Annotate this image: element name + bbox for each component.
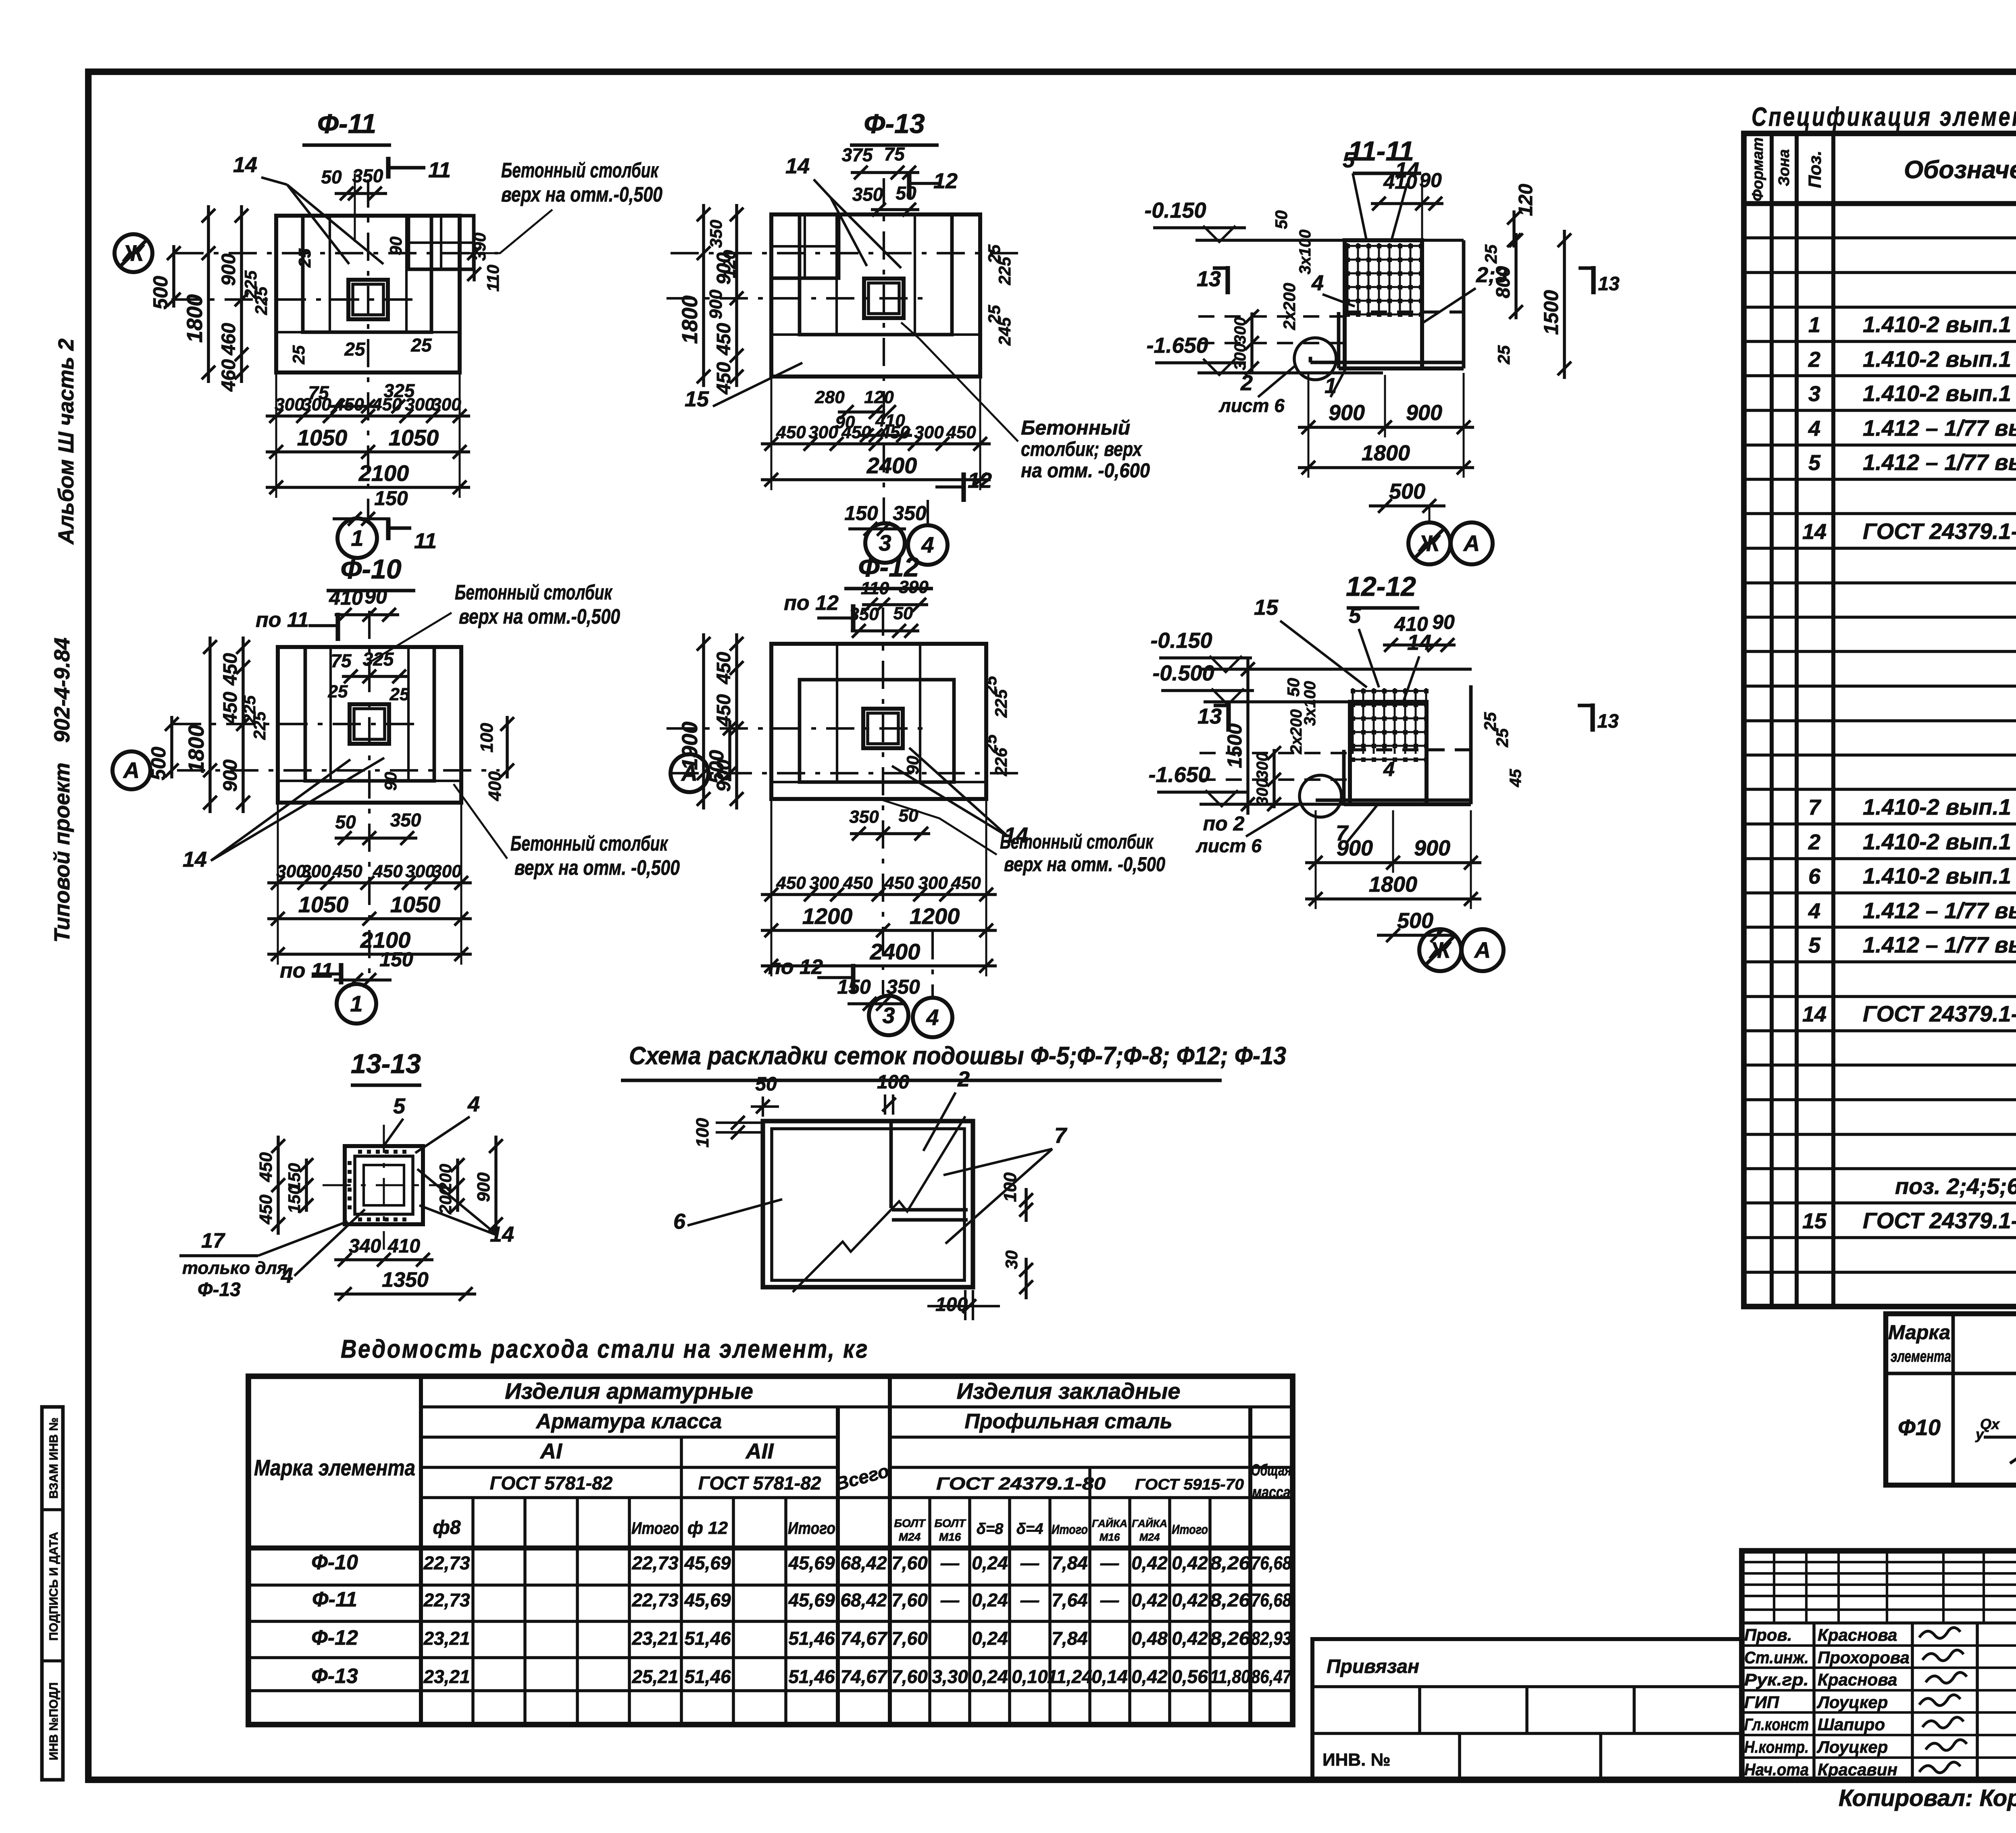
svg-text:-1.650: -1.650 (1146, 333, 1208, 358)
svg-text:500: 500 (1389, 479, 1425, 504)
svg-text:1.410-2 вып.1: 1.410-2 вып.1 (1863, 381, 2011, 406)
svg-text:7,60: 7,60 (891, 1590, 928, 1610)
svg-text:120: 120 (864, 387, 894, 407)
svg-text:15: 15 (1254, 595, 1279, 620)
svg-text:450: 450 (884, 873, 914, 893)
svg-text:7: 7 (1054, 1124, 1068, 1148)
svg-text:14: 14 (183, 847, 207, 872)
svg-text:0,24: 0,24 (972, 1666, 1008, 1687)
svg-text:элемента: элемента (1891, 1348, 1951, 1365)
svg-text:Краснова: Краснова (1818, 1625, 1897, 1644)
svg-text:50: 50 (321, 166, 342, 187)
svg-text:25: 25 (1494, 345, 1513, 364)
svg-text:900: 900 (1406, 401, 1442, 425)
svg-text:450: 450 (776, 422, 806, 442)
svg-text:лист 6: лист 6 (1195, 835, 1262, 856)
svg-text:3,30: 3,30 (932, 1666, 968, 1687)
svg-text:Бетонный столбик: Бетонный столбик (501, 159, 659, 182)
svg-text:—: — (940, 1590, 960, 1610)
svg-text:—: — (1100, 1552, 1119, 1573)
svg-text:45,69: 45,69 (788, 1552, 835, 1573)
svg-text:по 2: по 2 (1203, 812, 1245, 835)
svg-text:Ф-12: Ф-12 (311, 1626, 358, 1650)
svg-text:Красавин: Красавин (1818, 1760, 1897, 1779)
svg-text:Лоуцкер: Лоуцкер (1816, 1737, 1888, 1756)
svg-text:22,73: 22,73 (631, 1590, 679, 1610)
svg-text:0,42: 0,42 (1172, 1552, 1208, 1573)
svg-text:900: 900 (220, 759, 241, 792)
svg-text:1800: 1800 (1369, 872, 1417, 897)
svg-text:по 12: по 12 (768, 955, 823, 979)
svg-text:450: 450 (713, 652, 735, 685)
svg-text:верх на отм.-0,500: верх на отм.-0,500 (459, 605, 620, 628)
svg-text:50: 50 (896, 183, 916, 204)
svg-text:500: 500 (149, 276, 172, 310)
svg-text:верх на отм. -0,500: верх на отм. -0,500 (1004, 853, 1165, 876)
svg-text:Ф-11: Ф-11 (312, 1588, 357, 1611)
svg-text:0,42: 0,42 (1172, 1590, 1208, 1610)
svg-text:1.410-2 вып.1: 1.410-2 вып.1 (1863, 829, 2011, 854)
svg-text:-0.500: -0.500 (1152, 661, 1214, 685)
svg-text:0,42: 0,42 (1172, 1628, 1208, 1649)
svg-text:Итого: Итого (1172, 1522, 1208, 1537)
svg-text:460: 460 (218, 323, 240, 356)
svg-text:1: 1 (351, 525, 363, 551)
svg-text:1050: 1050 (389, 425, 439, 450)
svg-text:лист 6: лист 6 (1218, 395, 1285, 416)
svg-text:Гл.конст: Гл.конст (1744, 1715, 1809, 1734)
svg-text:1050: 1050 (297, 425, 348, 450)
svg-text:350: 350 (893, 502, 927, 524)
svg-text:А: А (1463, 531, 1480, 556)
svg-text:1.410-2 вып.1: 1.410-2 вып.1 (1863, 863, 2011, 888)
svg-text:300: 300 (918, 873, 948, 893)
svg-text:ГАЙКА: ГАЙКА (1132, 1517, 1167, 1529)
svg-text:900: 900 (1337, 836, 1373, 860)
svg-text:0,24: 0,24 (972, 1590, 1008, 1610)
svg-text:300: 300 (808, 422, 838, 442)
svg-text:Пров.: Пров. (1744, 1625, 1792, 1644)
svg-text:13: 13 (1197, 267, 1221, 291)
svg-text:Лоуцкер: Лоуцкер (1816, 1693, 1888, 1712)
svg-text:5: 5 (393, 1094, 406, 1118)
svg-text:100: 100 (877, 1072, 909, 1093)
svg-text:8,26: 8,26 (1210, 1590, 1250, 1610)
svg-text:Рук.гр.: Рук.гр. (1744, 1670, 1809, 1689)
svg-text:Краснова: Краснова (1818, 1670, 1897, 1689)
svg-text:450: 450 (713, 694, 735, 727)
svg-text:14: 14 (785, 154, 810, 178)
svg-text:390: 390 (899, 577, 929, 597)
svg-text:1800: 1800 (1362, 441, 1410, 465)
svg-text:25: 25 (289, 345, 308, 364)
svg-text:2100: 2100 (358, 460, 409, 486)
svg-text:Поз.: Поз. (1805, 150, 1825, 188)
svg-text:7: 7 (1808, 795, 1822, 820)
svg-text:500: 500 (147, 747, 170, 780)
svg-text:450: 450 (332, 861, 362, 881)
svg-text:51,46: 51,46 (788, 1666, 835, 1687)
svg-text:1800: 1800 (184, 725, 208, 773)
svg-text:4: 4 (1383, 758, 1395, 780)
svg-text:7,60: 7,60 (891, 1552, 928, 1573)
svg-text:225: 225 (250, 711, 269, 740)
svg-text:6: 6 (1808, 864, 1821, 888)
svg-text:300: 300 (275, 395, 304, 414)
svg-text:ГОСТ 24379.1-80: ГОСТ 24379.1-80 (1863, 1208, 2016, 1233)
svg-text:25: 25 (389, 685, 410, 704)
svg-text:300: 300 (301, 861, 331, 881)
svg-text:7,64: 7,64 (1052, 1590, 1088, 1610)
svg-text:86,47: 86,47 (1251, 1666, 1292, 1687)
svg-text:300: 300 (809, 873, 839, 893)
svg-text:Копировал: Корецкая 19994-04: Копировал: Корецкая 19994-04 9 (1839, 1785, 2016, 1811)
svg-text:100: 100 (477, 723, 497, 753)
svg-text:51,46: 51,46 (788, 1628, 835, 1649)
svg-text:450: 450 (220, 692, 241, 724)
svg-text:А: А (123, 757, 140, 783)
svg-text:БОЛТ: БОЛТ (934, 1517, 966, 1529)
svg-text:5: 5 (1343, 148, 1355, 172)
svg-text:Итого: Итого (631, 1519, 679, 1538)
svg-text:30: 30 (1002, 1250, 1021, 1269)
svg-text:14: 14 (1802, 1002, 1826, 1026)
svg-text:Ф-10: Ф-10 (340, 554, 402, 585)
svg-text:14: 14 (1395, 158, 1419, 182)
svg-text:-0.150: -0.150 (1150, 628, 1212, 653)
svg-text:25: 25 (410, 335, 432, 356)
svg-text:13: 13 (1597, 711, 1619, 732)
svg-text:1050: 1050 (390, 892, 441, 917)
svg-text:ГОСТ 24379.1-80: ГОСТ 24379.1-80 (1863, 1001, 2016, 1026)
svg-text:Шапиро: Шапиро (1818, 1715, 1885, 1734)
svg-text:2400: 2400 (870, 939, 921, 964)
svg-text:120: 120 (720, 250, 739, 278)
svg-text:11,24: 11,24 (1047, 1666, 1092, 1687)
svg-text:50: 50 (893, 603, 913, 623)
svg-text:5: 5 (1808, 451, 1821, 475)
svg-text:2: 2 (1808, 830, 1820, 854)
svg-text:4: 4 (926, 1005, 939, 1030)
svg-text:Ф-10: Ф-10 (311, 1551, 358, 1574)
svg-text:5: 5 (1349, 603, 1361, 628)
svg-text:90: 90 (835, 412, 855, 432)
svg-text:76,68: 76,68 (1251, 1552, 1291, 1573)
svg-text:1050: 1050 (298, 892, 349, 917)
svg-text:22,73: 22,73 (631, 1552, 679, 1573)
svg-text:Ф-11: Ф-11 (317, 108, 376, 139)
svg-text:300: 300 (431, 395, 461, 414)
svg-text:225: 225 (995, 256, 1014, 285)
svg-text:12-12: 12-12 (1346, 571, 1416, 602)
svg-text:4: 4 (1808, 899, 1820, 923)
svg-text:300: 300 (914, 422, 944, 442)
svg-text:68,42: 68,42 (840, 1590, 887, 1610)
svg-text:2: 2 (1808, 347, 1820, 372)
svg-text:Изделия закладные: Изделия закладные (956, 1378, 1180, 1404)
svg-text:300: 300 (1231, 317, 1249, 344)
svg-text:410: 410 (875, 411, 905, 431)
svg-text:верх на отм.-0,500: верх на отм.-0,500 (501, 183, 662, 206)
svg-text:7,84: 7,84 (1052, 1552, 1088, 1573)
svg-text:только для: только для (182, 1258, 287, 1278)
svg-text:поз. 2;4;5;6;7;14 см. Ф12: поз. 2;4;5;6;7;14 см. Ф12 (1895, 1173, 2016, 1199)
svg-text:150: 150 (374, 487, 408, 510)
svg-text:75: 75 (884, 144, 905, 164)
svg-text:1.412 – 1/77 вып.3: 1.412 – 1/77 вып.3 (1863, 449, 2016, 475)
svg-text:90: 90 (1432, 611, 1455, 633)
svg-text:900: 900 (1414, 836, 1450, 860)
svg-text:0,24: 0,24 (972, 1628, 1008, 1649)
svg-text:325: 325 (363, 649, 394, 670)
svg-text:17: 17 (201, 1229, 225, 1253)
svg-text:верх на отм. -0,500: верх на отм. -0,500 (514, 856, 680, 880)
svg-text:ф 12: ф 12 (687, 1518, 728, 1538)
svg-text:450: 450 (220, 653, 241, 686)
svg-text:450: 450 (373, 861, 403, 881)
svg-text:Формат: Формат (1749, 137, 1766, 202)
svg-text:0,56: 0,56 (1172, 1666, 1208, 1687)
svg-text:Ф-13: Ф-13 (311, 1664, 358, 1688)
svg-text:ГОСТ 5781-82: ГОСТ 5781-82 (698, 1473, 821, 1494)
svg-text:ПОДПИСЬ И ДАТА: ПОДПИСЬ И ДАТА (47, 1532, 60, 1641)
svg-text:Марка: Марка (1888, 1321, 1950, 1344)
svg-text:120: 120 (1515, 184, 1537, 216)
svg-text:2;3: 2;3 (1476, 263, 1508, 287)
svg-text:—: — (1020, 1590, 1039, 1610)
svg-text:280: 280 (814, 387, 845, 407)
svg-text:25: 25 (295, 248, 314, 268)
svg-text:Итого: Итого (788, 1519, 835, 1538)
svg-text:-0.150: -0.150 (1144, 198, 1206, 223)
svg-text:Ст.инж.: Ст.инж. (1744, 1648, 1809, 1667)
svg-text:Арматура класса: Арматура класса (535, 1410, 722, 1433)
svg-text:0,48: 0,48 (1131, 1628, 1168, 1649)
svg-text:1200: 1200 (910, 903, 960, 929)
svg-text:Ведомость расхода стали на эл: Ведомость расхода стали на элемент, кг (341, 1334, 869, 1363)
svg-text:23,21: 23,21 (631, 1628, 678, 1649)
svg-text:Зона: Зона (1776, 149, 1793, 186)
svg-text:1.412 – 1/77 вып.3: 1.412 – 1/77 вып.3 (1863, 898, 2016, 923)
svg-text:900: 900 (218, 254, 240, 286)
svg-text:25: 25 (1481, 244, 1500, 264)
svg-text:900: 900 (1329, 401, 1365, 425)
svg-text:300: 300 (1231, 343, 1249, 370)
svg-text:45,69: 45,69 (684, 1590, 731, 1610)
svg-text:245: 245 (995, 317, 1014, 346)
svg-text:на отм. -0,600: на отм. -0,600 (1021, 459, 1150, 482)
svg-text:5: 5 (1808, 933, 1821, 957)
svg-text:50: 50 (1284, 678, 1303, 697)
svg-text:90: 90 (903, 756, 922, 775)
svg-text:150: 150 (285, 1185, 304, 1213)
svg-text:1.412 – 1/77 вып.3: 1.412 – 1/77 вып.3 (1863, 415, 2016, 441)
svg-text:75: 75 (331, 650, 352, 671)
svg-text:Итого: Итого (1052, 1522, 1088, 1537)
svg-text:Схема раскладки сеток подошвы: Схема раскладки сеток подошвы Ф-5;Ф-7;Ф-… (629, 1042, 1286, 1070)
svg-text:23,21: 23,21 (423, 1666, 470, 1687)
svg-text:0,42: 0,42 (1131, 1666, 1168, 1687)
svg-text:350: 350 (352, 165, 383, 186)
svg-text:ГОСТ 24379.1-80: ГОСТ 24379.1-80 (1863, 518, 2016, 544)
svg-text:90: 90 (386, 237, 405, 256)
svg-text:300: 300 (1254, 779, 1271, 806)
svg-text:300: 300 (1254, 753, 1271, 780)
svg-text:410: 410 (387, 1236, 420, 1257)
svg-text:ф8: ф8 (433, 1517, 460, 1538)
svg-text:2: 2 (957, 1067, 970, 1091)
svg-text:13: 13 (1598, 273, 1620, 295)
svg-text:Обозначение: Обозначение (1904, 156, 2016, 184)
svg-text:11: 11 (414, 529, 437, 553)
svg-text:50: 50 (755, 1074, 777, 1095)
svg-text:Бетонный столбик: Бетонный столбик (1000, 830, 1154, 853)
svg-text:Общая: Общая (1251, 1461, 1291, 1479)
svg-text:300: 300 (405, 861, 435, 881)
svg-text:-1.650: -1.650 (1148, 763, 1210, 787)
svg-text:450: 450 (713, 323, 735, 356)
svg-text:300: 300 (432, 861, 462, 881)
svg-text:3: 3 (1808, 382, 1820, 406)
svg-text:δ=8: δ=8 (977, 1521, 1004, 1538)
svg-text:450: 450 (951, 873, 981, 893)
svg-text:М24: М24 (899, 1531, 921, 1543)
svg-text:2400: 2400 (866, 453, 917, 478)
svg-text:410: 410 (1394, 613, 1428, 635)
svg-text:Привязан: Привязан (1327, 1656, 1419, 1677)
svg-text:Спецификация элементов монол: Спецификация элементов монолитных фундам… (1752, 102, 2016, 131)
svg-text:АΙ: АΙ (539, 1439, 562, 1463)
svg-text:ИНВ. №: ИНВ. № (1322, 1750, 1391, 1770)
svg-text:1: 1 (350, 991, 362, 1016)
svg-text:Профильная сталь: Профильная сталь (964, 1410, 1172, 1433)
svg-text:74,67: 74,67 (840, 1666, 888, 1687)
svg-text:Нач.ота: Нач.ота (1744, 1760, 1809, 1779)
svg-text:100: 100 (1000, 1172, 1020, 1202)
svg-text:76,68: 76,68 (1251, 1590, 1291, 1610)
svg-text:масса: масса (1252, 1483, 1291, 1501)
svg-text:12: 12 (968, 468, 992, 493)
svg-text:90: 90 (364, 585, 387, 608)
svg-text:8,26: 8,26 (1210, 1552, 1250, 1573)
svg-text:1800: 1800 (183, 294, 207, 343)
svg-text:110: 110 (483, 265, 502, 292)
svg-text:7,60: 7,60 (891, 1628, 928, 1649)
svg-text:—: — (1020, 1552, 1039, 1573)
svg-text:Альбом Ш часть 2: Альбом Ш часть 2 (54, 339, 78, 545)
svg-text:1: 1 (1325, 374, 1337, 398)
svg-text:1200: 1200 (802, 903, 853, 929)
svg-text:у: у (1975, 1426, 1985, 1442)
svg-text:350: 350 (390, 809, 421, 830)
svg-text:450: 450 (256, 1152, 276, 1182)
svg-text:ГАЙКА: ГАЙКА (1092, 1517, 1127, 1529)
svg-text:А: А (1474, 937, 1491, 963)
svg-text:δ=4: δ=4 (1016, 1521, 1043, 1538)
svg-text:100: 100 (693, 1118, 712, 1148)
svg-text:900: 900 (713, 759, 735, 792)
svg-text:1.410-2 вып.1: 1.410-2 вып.1 (1863, 312, 2011, 337)
svg-text:450: 450 (256, 1194, 276, 1225)
svg-text:15: 15 (1802, 1209, 1827, 1233)
svg-text:50: 50 (335, 811, 356, 832)
svg-text:45,69: 45,69 (684, 1552, 731, 1573)
svg-text:8,26: 8,26 (1210, 1628, 1250, 1649)
svg-text:90: 90 (381, 772, 400, 791)
svg-text:1900: 1900 (678, 722, 702, 770)
svg-text:ГОСТ 5781-82: ГОСТ 5781-82 (490, 1473, 613, 1494)
svg-text:3x100: 3x100 (1296, 229, 1314, 274)
svg-text:по 11: по 11 (280, 959, 333, 982)
svg-text:Ф-13: Ф-13 (198, 1279, 241, 1300)
svg-text:14: 14 (233, 153, 257, 177)
svg-text:25,21: 25,21 (631, 1666, 678, 1687)
svg-text:22,73: 22,73 (423, 1590, 470, 1610)
svg-text:Ф-13: Ф-13 (864, 108, 925, 139)
svg-text:4: 4 (467, 1092, 480, 1116)
svg-text:12: 12 (933, 169, 958, 193)
svg-text:4: 4 (1808, 416, 1820, 441)
svg-text:2x200: 2x200 (1287, 709, 1305, 754)
svg-text:226: 226 (991, 747, 1010, 776)
svg-text:0,42: 0,42 (1131, 1552, 1168, 1573)
svg-text:75: 75 (308, 382, 329, 403)
svg-text:45,69: 45,69 (788, 1590, 835, 1610)
svg-text:350: 350 (849, 807, 879, 827)
svg-text:ГОСТ 5915-70: ГОСТ 5915-70 (1135, 1476, 1244, 1493)
svg-text:1800: 1800 (678, 295, 702, 344)
svg-text:0,24: 0,24 (972, 1552, 1008, 1573)
svg-text:225: 225 (991, 689, 1010, 718)
svg-text:ИНВ №ПОДЛ: ИНВ №ПОДЛ (47, 1682, 60, 1760)
svg-text:7,60: 7,60 (891, 1666, 928, 1687)
svg-text:150: 150 (379, 948, 413, 971)
svg-text:4: 4 (1311, 271, 1324, 295)
svg-text:11: 11 (428, 158, 451, 182)
svg-text:Бетонный столбик: Бетонный столбик (455, 581, 613, 604)
svg-text:902-4-9.84: 902-4-9.84 (50, 637, 74, 743)
svg-text:25: 25 (328, 682, 348, 701)
svg-text:1.410-2 вып.1: 1.410-2 вып.1 (1863, 346, 2011, 372)
svg-text:0,42: 0,42 (1131, 1590, 1168, 1610)
svg-text:4: 4 (281, 1263, 293, 1288)
svg-text:3: 3 (882, 1003, 895, 1028)
svg-text:900: 900 (706, 289, 726, 319)
svg-text:1.412 – 1/77 вып.3: 1.412 – 1/77 вып.3 (1863, 932, 2016, 957)
svg-text:—: — (1100, 1590, 1119, 1610)
svg-text:ГИП: ГИП (1744, 1693, 1779, 1712)
svg-text:—: — (940, 1552, 960, 1573)
svg-text:82,93: 82,93 (1251, 1628, 1291, 1649)
svg-text:68,42: 68,42 (840, 1552, 887, 1573)
svg-text:350: 350 (706, 220, 725, 248)
svg-text:15: 15 (685, 387, 709, 411)
svg-text:225: 225 (252, 286, 271, 315)
svg-text:2: 2 (1240, 371, 1253, 395)
svg-text:4: 4 (921, 532, 934, 558)
svg-text:столбик; верх: столбик; верх (1021, 438, 1143, 460)
svg-text:110: 110 (861, 578, 889, 598)
svg-text:по 12: по 12 (784, 591, 839, 615)
svg-text:БОЛТ: БОЛТ (894, 1517, 926, 1529)
svg-text:51,46: 51,46 (684, 1666, 731, 1687)
svg-text:500: 500 (1397, 909, 1433, 933)
svg-text:450: 450 (776, 873, 806, 893)
svg-text:1500: 1500 (1540, 290, 1562, 335)
svg-text:13: 13 (1198, 704, 1222, 728)
svg-text:Прохорова: Прохорова (1818, 1648, 1910, 1667)
svg-text:1.410-2 вып.1: 1.410-2 вып.1 (1863, 794, 2011, 820)
